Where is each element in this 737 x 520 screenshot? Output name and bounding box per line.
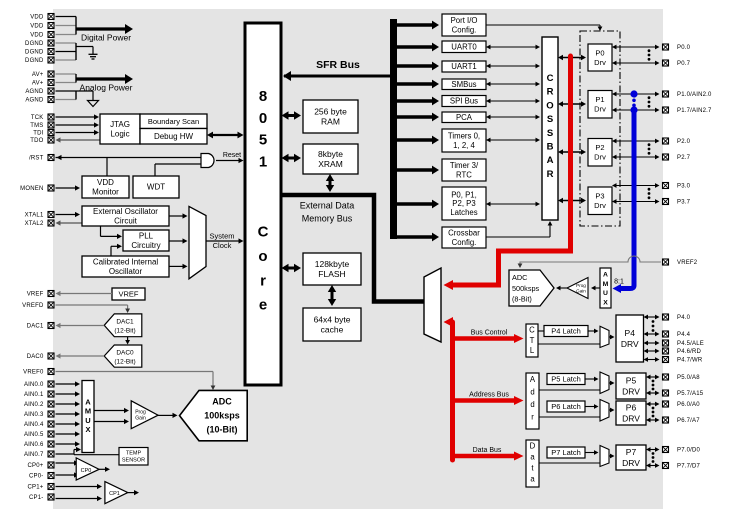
prog gain amp (ADC2) bbox=[567, 278, 588, 299]
svg-text:Oscillator: Oscillator bbox=[109, 267, 143, 276]
wire DAC1 to DAC0 bbox=[125, 337, 130, 345]
svg-text:VREF2: VREF2 bbox=[677, 260, 698, 266]
svg-text:Config.: Config. bbox=[452, 238, 477, 247]
comparator CP1 bbox=[105, 482, 128, 504]
wire CP1+ input bbox=[56, 484, 103, 489]
svg-text:O: O bbox=[546, 100, 553, 111]
wire CTL to P4 mux (2nd input) bbox=[538, 343, 600, 345]
pin DGND bbox=[25, 40, 54, 47]
block P0 Drv bbox=[588, 44, 612, 71]
svg-text:XTAL2: XTAL2 bbox=[25, 221, 44, 227]
pin VREFD bbox=[22, 302, 54, 309]
wire CP0+ input bbox=[56, 460, 80, 465]
svg-text:DRV: DRV bbox=[622, 413, 640, 423]
svg-text:TEMP: TEMP bbox=[126, 451, 142, 457]
svg-text:Digital Power: Digital Power bbox=[81, 33, 131, 43]
svg-text:VREF0: VREF0 bbox=[23, 370, 44, 376]
bus arrow to PCA bbox=[397, 113, 439, 122]
svg-text:S: S bbox=[547, 114, 553, 125]
wire Crossbar Config to crossbar bbox=[486, 221, 552, 237]
crossbar to P2 Drv double arrow bbox=[558, 149, 586, 155]
svg-text:L: L bbox=[530, 346, 535, 355]
ellipsis dots P6 bbox=[652, 407, 655, 418]
wire WDT to reset gate bbox=[155, 164, 201, 176]
svg-text:Drv: Drv bbox=[594, 201, 606, 210]
P2 Drv to pin P2.0 bbox=[612, 139, 660, 144]
Digital Power arrow bbox=[76, 24, 133, 43]
svg-text:P4.0: P4.0 bbox=[677, 315, 691, 321]
P4 DRV to pin P4.6/RD bbox=[644, 349, 660, 354]
svg-text:AGND: AGND bbox=[25, 98, 44, 104]
block SMBus bbox=[442, 79, 486, 90]
svg-text:M: M bbox=[603, 281, 609, 288]
wire TMS to JTAG Logic bbox=[56, 122, 100, 127]
svg-text:P5.7/A15: P5.7/A15 bbox=[677, 391, 704, 397]
P4 DRV to pin P4.4 bbox=[644, 332, 660, 337]
wire CP1 output bbox=[128, 490, 139, 495]
svg-text:Latches: Latches bbox=[450, 208, 477, 217]
pin AIN0.0 bbox=[24, 381, 54, 388]
svg-text:SFR Bus: SFR Bus bbox=[316, 59, 360, 71]
Timers 0, 1, 2, 4 to crossbar double arrow bbox=[486, 138, 540, 143]
svg-text:o: o bbox=[258, 248, 267, 265]
pin TMS bbox=[30, 122, 54, 129]
svg-text:DAC1: DAC1 bbox=[116, 319, 134, 326]
svg-text:R: R bbox=[547, 169, 554, 180]
block CTL bbox=[526, 324, 538, 357]
P4 output mux bbox=[600, 326, 609, 347]
P4 DRV to pin P4.7/WR bbox=[644, 357, 660, 362]
digital ground symbol bbox=[89, 54, 98, 59]
svg-text:ADC: ADC bbox=[212, 397, 232, 407]
P7 DRV to pin P7.7/D7 bbox=[646, 463, 660, 468]
svg-text:UART0: UART0 bbox=[451, 42, 477, 51]
SPI Bus to crossbar double arrow bbox=[486, 99, 540, 104]
block Addr bbox=[526, 373, 539, 429]
wire VDD pins to digital power bus bbox=[56, 17, 77, 35]
svg-text:A: A bbox=[85, 398, 91, 407]
pin MONEN bbox=[20, 185, 54, 192]
pin CP1+ bbox=[28, 484, 54, 491]
pin P5.0/A8 bbox=[663, 374, 701, 381]
block Data bbox=[526, 440, 539, 487]
svg-text:CP1: CP1 bbox=[109, 491, 120, 497]
wire ext osc to PLL bbox=[101, 226, 123, 239]
ADC2 500ksps (8-Bit) bbox=[509, 270, 554, 306]
block P2 Drv bbox=[588, 139, 612, 167]
svg-text:VDD: VDD bbox=[30, 15, 44, 21]
svg-text:Monitor: Monitor bbox=[92, 187, 119, 196]
svg-text:VDD: VDD bbox=[30, 24, 44, 30]
svg-text:X: X bbox=[603, 299, 608, 306]
wire system clock to core bbox=[206, 238, 244, 243]
bus arrow to UART0 bbox=[397, 43, 439, 52]
svg-text:RTC: RTC bbox=[456, 170, 472, 179]
wire XTAL1 to oscillator bbox=[56, 212, 81, 217]
P7 mux to P7 DRV bbox=[609, 454, 615, 459]
svg-text:DGND: DGND bbox=[25, 41, 44, 47]
pin P3.7 bbox=[663, 199, 691, 206]
svg-text:P3.7: P3.7 bbox=[677, 200, 691, 206]
block P4 DRV bbox=[616, 315, 644, 362]
P2 Drv to pin P2.7 bbox=[612, 155, 660, 160]
svg-text:128kbyte: 128kbyte bbox=[315, 259, 350, 269]
svg-text:(8-Bit): (8-Bit) bbox=[512, 295, 532, 304]
svg-text:U: U bbox=[85, 416, 90, 425]
svg-text:S: S bbox=[547, 128, 553, 139]
pin AGND bbox=[25, 88, 54, 95]
svg-text:TCK: TCK bbox=[31, 115, 44, 121]
pin CP0+ bbox=[28, 462, 54, 469]
pin P7.0/D0 bbox=[663, 447, 701, 454]
P5 mux to P5 DRV bbox=[609, 381, 615, 386]
pin P0.7 bbox=[663, 60, 691, 67]
P6 DRV to pin P6.7/A7 bbox=[646, 418, 660, 423]
block 256 byte RAM bbox=[303, 100, 358, 133]
pin P2.0 bbox=[663, 138, 691, 145]
svg-text:SMBus: SMBus bbox=[451, 80, 476, 89]
pin P5.7/A15 bbox=[663, 390, 704, 397]
wire prog gain to ADC0 bbox=[158, 413, 177, 418]
wire reset gate to core bbox=[216, 158, 244, 163]
svg-text:Timers 0,: Timers 0, bbox=[448, 132, 480, 141]
P7 output mux bbox=[600, 446, 609, 467]
svg-text:CP1-: CP1- bbox=[29, 495, 43, 501]
wire AMUX2 to prog gain bbox=[591, 286, 600, 291]
svg-text:Boundary Scan: Boundary Scan bbox=[148, 117, 199, 126]
svg-text:d: d bbox=[530, 388, 534, 397]
svg-text:SENSOR: SENSOR bbox=[122, 458, 145, 464]
ellipsis dots P2 port bbox=[648, 143, 651, 154]
svg-text:B: B bbox=[547, 142, 554, 153]
P4 DRV to pin P4.0 bbox=[644, 315, 660, 320]
svg-text:C: C bbox=[547, 73, 554, 84]
pin AIN0.4 bbox=[24, 421, 54, 428]
svg-text:AIN0.3: AIN0.3 bbox=[24, 412, 44, 418]
pin VDD bbox=[30, 14, 54, 21]
ADC0 100ksps (10-Bit) bbox=[180, 390, 248, 440]
P4 latch to mux bbox=[588, 329, 599, 334]
block Crossbar Config. bbox=[442, 227, 486, 248]
svg-text:TMS: TMS bbox=[30, 123, 43, 129]
svg-text:(10-Bit): (10-Bit) bbox=[207, 425, 238, 435]
svg-text:8kbyte: 8kbyte bbox=[318, 149, 343, 159]
wire prog gain to ADC2 bbox=[556, 286, 567, 291]
P1 Drv to pin P1.0 bbox=[612, 92, 660, 97]
block P0-P3 latches bbox=[442, 187, 486, 220]
wire Addr to P6 mux (2nd input) bbox=[539, 416, 600, 418]
block UART1 bbox=[442, 61, 486, 72]
pin TCK bbox=[31, 114, 54, 121]
wire VREFD to DAC1 bbox=[56, 305, 131, 313]
pin P4.0 bbox=[663, 314, 691, 321]
svg-text:P7.0/D0: P7.0/D0 bbox=[677, 448, 701, 454]
svg-text:Data Bus: Data Bus bbox=[473, 447, 502, 454]
svg-text:External Oscillator: External Oscillator bbox=[93, 207, 158, 216]
svg-text:XRAM: XRAM bbox=[318, 159, 343, 169]
block UART0 bbox=[442, 41, 486, 53]
block Timer 3/ RTC bbox=[442, 159, 486, 181]
svg-text:P4.5/ALE: P4.5/ALE bbox=[677, 341, 704, 347]
wire TCK to JTAG Logic bbox=[56, 114, 100, 119]
svg-text:TDO: TDO bbox=[30, 138, 43, 144]
block Timers 0, 1, 2, 4 bbox=[442, 129, 486, 152]
svg-text:P4 Latch: P4 Latch bbox=[551, 327, 581, 336]
ellipsis dots P0 port bbox=[648, 49, 651, 60]
svg-text:D: D bbox=[530, 442, 536, 451]
wire AV+ pins to analog power bus bbox=[56, 74, 77, 83]
svg-text:P2.0: P2.0 bbox=[677, 139, 691, 145]
P5 DRV to pin P5.7/A15 bbox=[646, 391, 660, 396]
block P7 Latch bbox=[547, 447, 585, 458]
label System Clock bbox=[209, 232, 234, 251]
bus arrow to Crossbar Config. bbox=[397, 233, 439, 242]
wire AIN0.0 to AMUX bbox=[56, 381, 81, 386]
block PLL Circuitry bbox=[123, 230, 169, 251]
bus arrow to UART1 bbox=[397, 62, 439, 71]
svg-text:a: a bbox=[530, 453, 535, 462]
pin AIN0.5 bbox=[24, 431, 54, 438]
bus arrow to SMBus bbox=[397, 80, 439, 89]
wire Data to P7 mux (2nd input) bbox=[539, 462, 600, 464]
svg-text:Port I/O: Port I/O bbox=[451, 16, 478, 25]
svg-text:(12-Bit): (12-Bit) bbox=[114, 328, 135, 335]
svg-text:AIN0.7: AIN0.7 bbox=[24, 452, 44, 458]
svg-text:CP0: CP0 bbox=[81, 468, 92, 474]
svg-text:P1.0/AIN2.0: P1.0/AIN2.0 bbox=[677, 92, 712, 98]
svg-text:X: X bbox=[85, 425, 90, 434]
pin P6.0/A0 bbox=[663, 401, 701, 408]
svg-text:CP1+: CP1+ bbox=[28, 485, 44, 491]
wire /RST net bbox=[56, 155, 202, 176]
svg-text:PCA: PCA bbox=[456, 113, 473, 122]
SFR vertical bus (thick) bbox=[390, 19, 397, 239]
svg-text:Drv: Drv bbox=[594, 105, 606, 114]
P7 DRV to pin P7.0/D0 bbox=[646, 447, 660, 452]
svg-text:System: System bbox=[209, 232, 234, 241]
SFR Bus line bbox=[283, 71, 397, 81]
pin P2.7 bbox=[663, 154, 691, 161]
wire CTL to P4 latch bbox=[538, 330, 544, 332]
wire DAC1 to pin bbox=[56, 323, 105, 328]
svg-text:U: U bbox=[603, 290, 608, 297]
svg-text:PLL: PLL bbox=[139, 231, 154, 240]
svg-text:1, 2, 4: 1, 2, 4 bbox=[453, 141, 475, 150]
svg-text:1: 1 bbox=[259, 153, 267, 170]
pin P0.0 bbox=[663, 44, 691, 51]
block 128kbyte FLASH bbox=[303, 253, 361, 285]
DAC1 (12-Bit) bbox=[104, 314, 142, 337]
block P5 Latch bbox=[547, 374, 585, 385]
P5 output mux bbox=[600, 372, 609, 394]
svg-text:Logic: Logic bbox=[110, 129, 129, 138]
FLASH to cache arrow bbox=[328, 285, 336, 306]
UART1 to crossbar double arrow bbox=[486, 64, 540, 69]
ellipsis dots P7 bbox=[652, 452, 655, 463]
pin P4.4 bbox=[663, 331, 691, 338]
svg-text:P4.4: P4.4 bbox=[677, 332, 691, 338]
svg-text:C: C bbox=[529, 326, 535, 335]
crossbar to P1 Drv double arrow bbox=[558, 101, 586, 107]
block VREF bbox=[112, 288, 145, 300]
XRAM to EDM bus arrow bbox=[326, 174, 334, 192]
svg-text:ADC: ADC bbox=[512, 273, 527, 282]
svg-text:TDI: TDI bbox=[33, 131, 43, 137]
svg-text:UART1: UART1 bbox=[451, 62, 476, 71]
svg-text:DAC0: DAC0 bbox=[27, 354, 44, 360]
svg-text:P5: P5 bbox=[626, 375, 637, 385]
block 8kbyte XRAM bbox=[303, 144, 358, 174]
svg-text:P6.0/A0: P6.0/A0 bbox=[677, 402, 700, 408]
svg-text:Gain: Gain bbox=[576, 289, 586, 294]
svg-text:AIN0.4: AIN0.4 bbox=[24, 422, 44, 428]
svg-text:Address Bus: Address Bus bbox=[469, 392, 509, 399]
svg-text:External Data: External Data bbox=[300, 201, 355, 211]
UART0 to crossbar double arrow bbox=[486, 45, 540, 50]
svg-text:A: A bbox=[603, 272, 608, 279]
pin DGND bbox=[25, 49, 54, 56]
P0 Drv to pin P0.7 bbox=[612, 61, 660, 66]
svg-text:DRV: DRV bbox=[622, 386, 640, 396]
pin /RST bbox=[29, 155, 54, 162]
crossbar to P0 Drv double arrow bbox=[558, 55, 586, 61]
pin P1.0/AIN2.0 bbox=[663, 91, 713, 98]
wire AIN0.5 to AMUX bbox=[56, 431, 81, 436]
block P6 Latch bbox=[547, 401, 585, 412]
svg-text:P6 Latch: P6 Latch bbox=[551, 402, 581, 411]
pin TDO bbox=[30, 137, 54, 144]
pin P6.7/A7 bbox=[663, 417, 701, 424]
pin AIN0.3 bbox=[24, 411, 54, 418]
svg-text:AV+: AV+ bbox=[32, 72, 44, 78]
wire VREF2 to ADC2 bbox=[518, 256, 661, 268]
red bus: bus control / address / data bbox=[444, 317, 524, 461]
core to XRAM arrow bbox=[282, 154, 302, 162]
pin CP1- bbox=[29, 494, 54, 501]
P3 Drv to pin P3.7 bbox=[612, 199, 660, 204]
svg-text:AV+: AV+ bbox=[32, 81, 44, 87]
wire AGND pins to analog ground bbox=[56, 91, 94, 101]
svg-text:Clock: Clock bbox=[213, 241, 232, 250]
svg-text:P1: P1 bbox=[595, 95, 604, 104]
block JTAG Logic bbox=[100, 114, 140, 144]
svg-text:DAC1: DAC1 bbox=[27, 324, 44, 330]
ellipsis dots P5 bbox=[652, 380, 655, 391]
svg-text:500ksps: 500ksps bbox=[512, 284, 540, 293]
pin AV+ bbox=[32, 80, 54, 87]
AMUX block (analog mux) bbox=[82, 381, 94, 453]
TEMP SENSOR block bbox=[119, 448, 148, 466]
P5 DRV to pin P5.0/A8 bbox=[646, 375, 660, 380]
svg-text:AIN0.0: AIN0.0 bbox=[24, 382, 44, 388]
block 64x4 byte cache bbox=[303, 308, 361, 341]
pin VREF2 bbox=[663, 259, 698, 266]
svg-text:AIN0.1: AIN0.1 bbox=[24, 392, 44, 398]
pin AIN0.7 bbox=[24, 451, 54, 458]
svg-text:r: r bbox=[260, 272, 266, 289]
svg-text:FLASH: FLASH bbox=[318, 269, 345, 279]
block PCA bbox=[442, 112, 486, 123]
svg-text:e: e bbox=[259, 297, 267, 314]
svg-text:P3: P3 bbox=[595, 192, 604, 201]
pin XTAL2 bbox=[25, 220, 54, 227]
svg-text:P6: P6 bbox=[626, 402, 637, 412]
svg-text:Bus Control: Bus Control bbox=[471, 330, 508, 337]
svg-text:JTAG: JTAG bbox=[110, 120, 130, 129]
pin VREF bbox=[27, 291, 54, 298]
wire XTAL2 from oscillator bbox=[56, 220, 83, 225]
svg-text:AIN0.2: AIN0.2 bbox=[24, 402, 44, 408]
svg-text:0: 0 bbox=[259, 110, 267, 127]
bus arrow to SPI Bus bbox=[397, 97, 439, 106]
svg-text:P4: P4 bbox=[625, 328, 636, 338]
wire MONEN to VDD Monitor bbox=[56, 185, 81, 190]
P6 output mux bbox=[600, 400, 609, 422]
svg-text:Config.: Config. bbox=[452, 25, 477, 34]
pin P3.0 bbox=[663, 183, 691, 190]
svg-text:Prog: Prog bbox=[576, 283, 586, 288]
svg-text:8: 8 bbox=[259, 88, 267, 105]
wire VREF0 to ADC0 bbox=[56, 372, 216, 391]
wire AIN0.7 / temp sensor to AMUX bbox=[56, 447, 120, 455]
P7 latch to mux bbox=[585, 450, 599, 455]
svg-text:DRV: DRV bbox=[621, 339, 639, 349]
pin XTAL1 bbox=[25, 212, 54, 219]
bus arrow to Timer 3/ RTC bbox=[397, 166, 439, 175]
svg-text:P5 Latch: P5 Latch bbox=[551, 375, 581, 384]
crossbar to P3 Drv double arrow bbox=[558, 198, 586, 204]
wire PLL to clock mux bbox=[169, 238, 188, 243]
pin VDD bbox=[30, 23, 54, 30]
wire Addr to P5 mux (2nd input) bbox=[539, 389, 600, 391]
svg-text:R: R bbox=[547, 87, 554, 98]
svg-text:DGND: DGND bbox=[25, 58, 44, 64]
wire AIN0.1 to AMUX bbox=[56, 391, 81, 396]
svg-text:Gain: Gain bbox=[135, 416, 146, 422]
comparator CP0 bbox=[76, 458, 99, 480]
wire AIN0.6 to AMUX bbox=[56, 441, 81, 446]
core to FLASH arrow bbox=[282, 264, 302, 272]
wire TDO from JTAG Logic bbox=[56, 137, 101, 142]
AMUX2 block bbox=[600, 268, 611, 308]
block WDT bbox=[133, 176, 179, 198]
P4 DRV to pin P4.5/ALE bbox=[644, 341, 660, 346]
svg-text:Drv: Drv bbox=[594, 153, 606, 162]
DAC0 (12-Bit) bbox=[104, 345, 142, 367]
svg-text:T: T bbox=[530, 336, 535, 345]
svg-text:P2: P2 bbox=[595, 143, 604, 152]
Analog Power arrow bbox=[76, 74, 133, 93]
svg-text:64x4 byte: 64x4 byte bbox=[314, 314, 351, 324]
svg-text:A: A bbox=[530, 375, 536, 384]
svg-text:256 byte: 256 byte bbox=[314, 106, 347, 116]
svg-text:AIN0.5: AIN0.5 bbox=[24, 432, 44, 438]
wire AMUX to prog gain (lower) bbox=[94, 419, 129, 424]
P0-P3 latches to crossbar double arrow bbox=[486, 202, 540, 207]
svg-text:Drv: Drv bbox=[594, 58, 606, 67]
pin AIN0.1 bbox=[24, 391, 54, 398]
svg-text:MONEN: MONEN bbox=[20, 186, 43, 192]
svg-text:C: C bbox=[258, 224, 269, 241]
svg-text:AIN0.6: AIN0.6 bbox=[24, 442, 44, 448]
pin VREF0 bbox=[23, 369, 54, 376]
svg-text:P0.7: P0.7 bbox=[677, 61, 691, 67]
svg-text:cache: cache bbox=[321, 324, 344, 334]
red bus: ports to EMIF mux bbox=[444, 56, 571, 290]
svg-text:VDD: VDD bbox=[30, 33, 44, 39]
pin AV+ bbox=[32, 71, 54, 78]
block Boundary Scan bbox=[140, 114, 207, 129]
